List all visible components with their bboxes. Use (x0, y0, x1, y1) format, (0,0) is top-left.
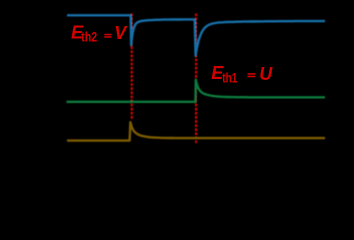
brown curve: lower trace with spike at first crossing (67, 122, 325, 140)
label E_th2 = V (71, 23, 128, 45)
blue curve: membrane potential trace with two threshold notches (67, 15, 325, 55)
svg-text:th1: th1 (222, 70, 237, 85)
red dashed threshold-crossing line 1 (x=131.7) (131, 14, 133, 121)
label E_th1 = U (211, 63, 273, 86)
svg-text:V: V (114, 23, 128, 43)
svg-text:U: U (259, 64, 273, 84)
green curve: threshold E_th1 with spike at second crossing (67, 80, 326, 102)
red dashed threshold-crossing line 2 (x=196) (195, 14, 197, 144)
svg-text:th2: th2 (81, 29, 97, 44)
